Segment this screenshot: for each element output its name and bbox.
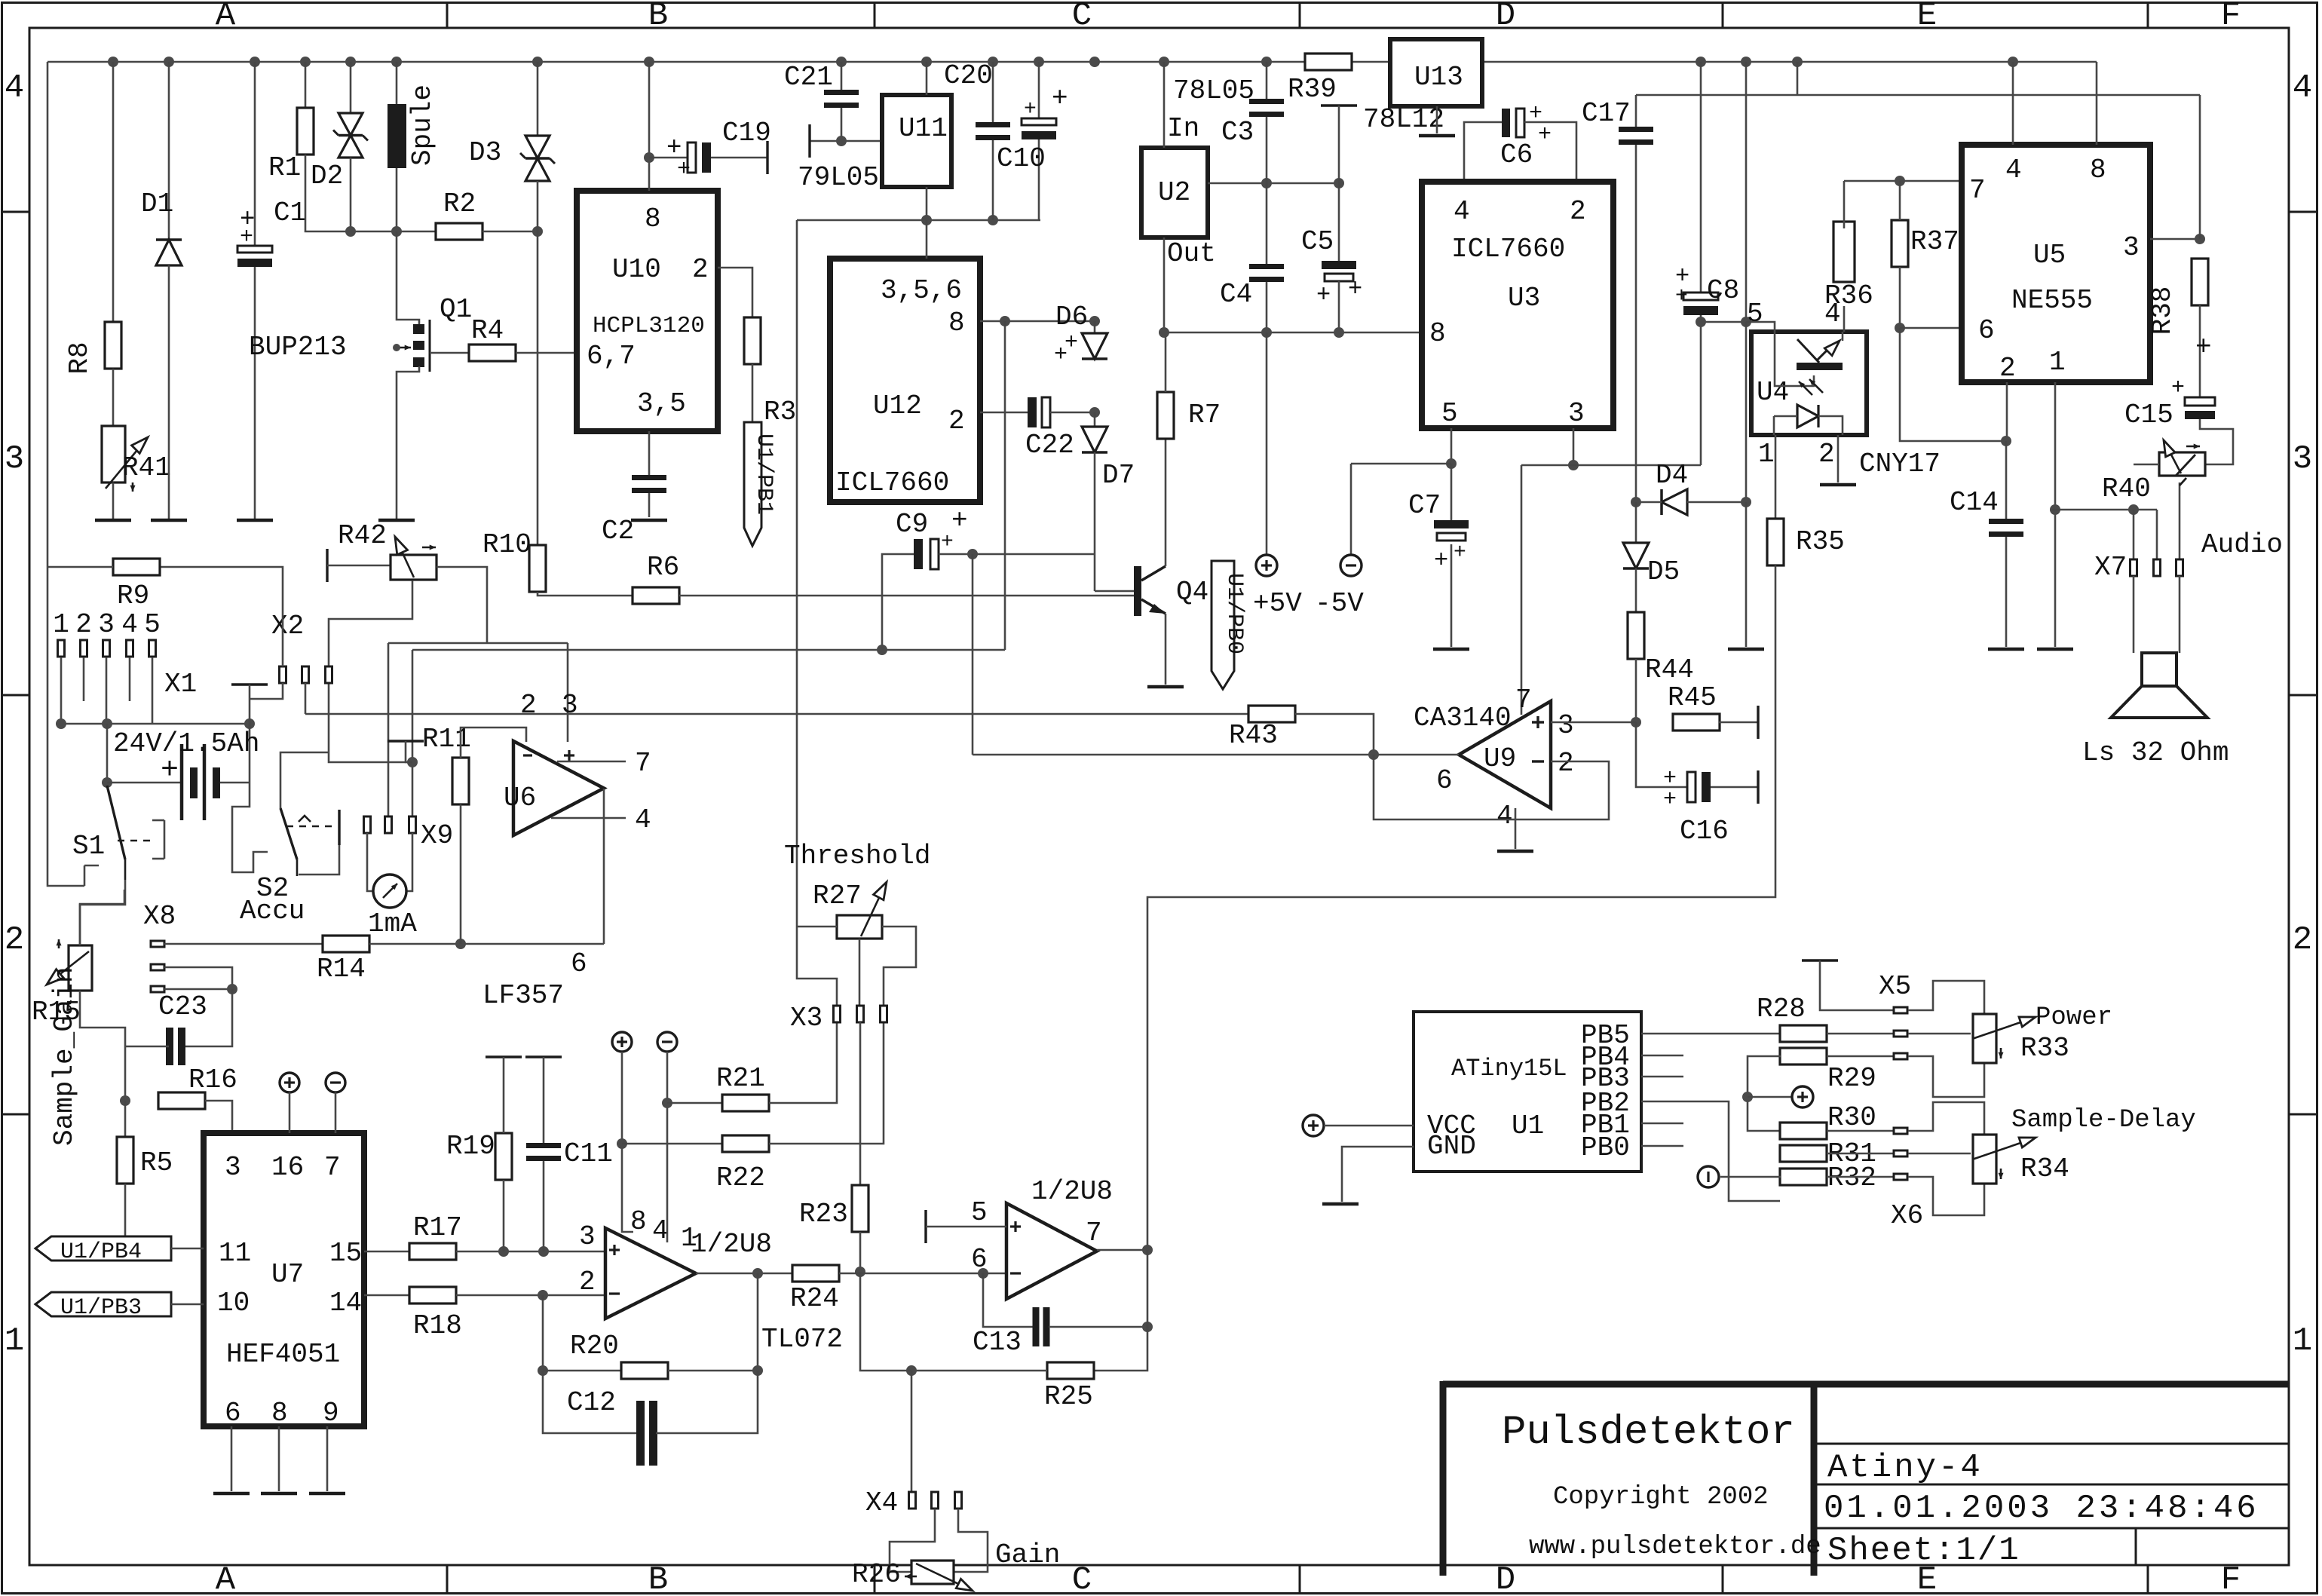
junction dot X4 riser [906,1365,917,1376]
ground under R41 [95,519,131,522]
svg-text:1: 1 [1758,439,1775,470]
svg-text:4: 4 [1454,196,1470,227]
svg-text:+: + [951,505,968,536]
wire U6 pin3 from y853 [567,643,569,742]
wire X7 pin2 riser [2156,510,2158,559]
wire C9 node riser to U9 output net [972,554,974,755]
svg-text:R45: R45 [1668,682,1717,713]
wire X4 pin3 to R26 right [954,1509,988,1572]
wire U9 supply rail y617 [1521,464,1701,467]
resistor R11 [452,758,469,804]
wire C8 D4 link y427 [1701,321,1746,323]
svg-text:+: + [1052,83,1068,114]
svg-text:ATiny15L: ATiny15L [1451,1055,1567,1083]
svg-text:R22: R22 [716,1163,765,1193]
title block rows [1814,1443,2289,1445]
svg-text:R21: R21 [716,1063,765,1094]
svg-text:+: + [1454,541,1466,565]
IC U4 CNY17 [1751,332,1867,435]
resistor R44 [1635,568,1637,612]
svg-text:7: 7 [635,748,651,779]
resistor R23 [852,1185,868,1232]
junction dot C21 node [836,136,847,146]
connector X9 [364,816,371,833]
svg-text:Accu: Accu [240,896,305,927]
capacitor C5 polarized [1321,104,1357,106]
wire X8 pin2 [164,967,232,989]
IC U13 78L12 [1390,39,1482,106]
svg-text:ICL7660: ICL7660 [835,467,949,498]
svg-text:R25: R25 [1044,1381,1093,1412]
speaker Ls 32 Ohm [2142,653,2176,686]
svg-text:R20: R20 [570,1331,619,1362]
svg-text:Copyright 2002: Copyright 2002 [1553,1483,1769,1512]
wire C23 right riser [182,989,232,1046]
wire R29 to X5 pin3 [1827,1055,1894,1058]
opamp U8b TL072 [1006,1203,1097,1299]
ground under Q1 [378,519,415,522]
svg-text:R5: R5 [140,1147,173,1178]
svg-text:U1/PB1: U1/PB1 [751,433,777,515]
diode D4 [1662,489,1687,515]
svg-text:C11: C11 [564,1138,613,1169]
svg-text:8: 8 [1429,318,1446,349]
svg-text:R23: R23 [799,1199,848,1230]
svg-text:8: 8 [271,1398,288,1429]
wire D1 column [168,62,170,240]
opamp U9 CA3140 [1459,701,1551,808]
wire R40 left lead [2134,464,2159,466]
wire S2 blade feed [280,752,329,808]
junction dot X7 pin1 riser [2128,504,2139,515]
wire U4 pin4 to R36 [1843,306,1846,332]
junction dot R37 top [1895,176,1905,186]
wire Q4 emitter to ground [1165,614,1167,685]
svg-text:D2: D2 [311,161,343,191]
svg-text:Sample-Delay: Sample-Delay [2011,1106,2196,1135]
wire flag PB4 to pin11 [171,1248,204,1250]
wire R11 bottom to R14 net [460,804,462,944]
wire X9 pin1 to meter [367,833,373,891]
svg-text:7: 7 [324,1152,341,1183]
wire R23 bottom [859,1232,862,1272]
resistor R31 [1780,1145,1827,1162]
svg-text:9: 9 [323,1398,339,1429]
svg-text:C2: C2 [602,516,634,547]
svg-text:+: + [1538,122,1552,148]
wire X9 pin2 riser [388,643,390,818]
pin7 stub U6 [557,761,626,763]
junction dot D6 D7 node [1089,407,1100,418]
svg-text:5: 5 [971,1197,988,1228]
capacitor C19 polarized [649,157,688,159]
wire U7 pin15 to R17 [364,1251,410,1253]
svg-text:U3: U3 [1508,283,1540,314]
svg-text:U7: U7 [271,1259,304,1290]
svg-text:HCPL3120: HCPL3120 [593,313,705,339]
svg-text:5: 5 [1441,398,1458,429]
svg-text:C22: C22 [1025,430,1074,461]
resistor R22 [622,1143,723,1145]
wire battery feed [106,724,109,783]
junction dot R20 right [752,1365,763,1376]
svg-text:78L12: 78L12 [1363,104,1444,135]
svg-text:X8: X8 [143,901,176,932]
wire R42 wiper tail [329,581,412,666]
wire U9 pin7 riser [1521,465,1523,715]
wire R29 left chain [1748,1056,1781,1131]
transistor Q4 [1134,566,1141,616]
wire R40 wiper to X7 pin3 [2179,482,2181,559]
svg-text:2: 2 [948,406,965,437]
wire U10 pin35 down [648,431,651,475]
svg-text:Ls 32 Ohm: Ls 32 Ohm [2082,737,2229,768]
IC U3 ICL7660 [1422,182,1613,428]
resistor R3 [744,317,761,364]
ground under C1 [237,519,273,522]
connector X6 [1894,1128,1907,1134]
junction dots opamp supplies [617,1138,627,1149]
connector X2 [280,666,286,683]
junction dot speaker net [2050,504,2060,515]
wire U9 pin2 feedback [1374,755,1609,819]
svg-text:R26: R26 [852,1559,901,1590]
wire X2 pin3 branch [329,683,412,762]
svg-text:3,5: 3,5 [637,388,686,419]
svg-text:R14: R14 [317,954,366,985]
resistor R9 [113,559,160,575]
svg-text:U1/PB4: U1/PB4 [60,1239,142,1265]
svg-text:R35: R35 [1796,526,1845,557]
svg-text:GND: GND [1427,1131,1476,1162]
wire C12 right [656,1371,758,1433]
resistor R8 [105,322,121,369]
wire rail riser to bus [1797,62,1799,95]
wire PB3 stub [1641,1076,1683,1078]
battery 24V [107,782,180,784]
supply circle plus U8a [612,1032,632,1052]
svg-text:C19: C19 [722,118,771,149]
svg-text:TL072: TL072 [761,1324,843,1355]
wire aux to R32 [1720,1176,1781,1178]
wire R11 top to U6 pin2 [461,728,526,758]
svg-text:R28: R28 [1757,994,1806,1025]
svg-text:CA3140: CA3140 [1414,703,1512,734]
svg-text:Atiny-4: Atiny-4 [1827,1449,1983,1487]
junction dots pin8 wire [1000,316,1010,326]
IC U2 78L05 [1141,148,1208,237]
svg-text:1/2U8: 1/2U8 [1031,1176,1113,1207]
svg-text:+: + [1663,787,1677,813]
flag U1/PB4 [35,1236,171,1261]
wire U5 pin6 [1900,327,1962,329]
wire U12 top pin [926,220,928,259]
capacitor C23 [166,1028,173,1065]
resistor R17 [409,1243,456,1260]
wire U4 pin5 to C8 rail [1746,322,1775,332]
wire C2 to ground [648,493,651,517]
svg-text:C6: C6 [1500,139,1533,170]
capacitor C10 polarized [1038,62,1040,118]
resistor R45 [1673,714,1720,731]
capacitor C3 [1266,62,1268,99]
junction dot pin6 net [1895,323,1905,333]
resistor R1 [297,108,314,155]
svg-text:+: + [941,531,954,554]
connector X7 [2131,559,2137,576]
wire VCC to U1 [1324,1125,1414,1127]
wire R43 to U9 [1295,714,1374,755]
svg-text:4: 4 [2293,69,2312,107]
wire D2 to node [350,158,352,231]
svg-text:+: + [1675,285,1688,308]
diode D5 [1635,502,1637,543]
svg-text:C13: C13 [973,1327,1022,1358]
wire PB5 to R28 [1641,1033,1781,1035]
ground under C2 [631,519,667,522]
wire net y862 [412,649,1005,651]
svg-text:U6: U6 [504,783,536,813]
svg-text:C3: C3 [1221,117,1254,148]
meter 1mA [373,875,406,908]
wire Q1 gate to R4 [430,352,469,354]
svg-text:R4: R4 [471,315,504,346]
junction dots X1 bus [56,718,66,729]
svg-text:X4: X4 [865,1487,898,1518]
ground under U13 [1419,134,1455,138]
wire speaker net y676 [2052,509,2157,511]
supply circle VCC [1303,1115,1324,1136]
wires U7 bottom pins to ground [231,1426,233,1491]
svg-text:R7: R7 [1188,400,1221,430]
svg-text:1: 1 [53,609,69,640]
svg-text:R38: R38 [2147,286,2178,335]
capacitor C11 [525,1055,562,1058]
svg-text:R17: R17 [413,1212,462,1243]
svg-text:6,7: 6,7 [587,341,636,372]
wire X6 pin1 to R34 top [1908,1102,1984,1135]
wire R25 left to X4 riser [911,1370,1047,1372]
svg-text:3: 3 [2123,232,2140,263]
wire C9 left leg [882,554,914,650]
wire R19 bottom [503,1180,505,1251]
wire U4 pin1 to R35 [1775,435,1777,519]
svg-text:7: 7 [1515,685,1532,715]
svg-text:Gain: Gain [995,1539,1060,1570]
resistor R21 [667,1102,723,1104]
svg-text:4: 4 [1496,801,1513,832]
svg-text:+: + [1434,547,1448,574]
svg-text:D7: D7 [1102,460,1135,491]
svg-text:-5V: -5V [1315,588,1364,619]
wire X8 pin1 to R14 [164,943,323,945]
wire X7 pin1 riser [2133,510,2135,559]
ground under D4 right [1728,648,1764,651]
svg-text:U13: U13 [1414,62,1463,93]
svg-text:U5: U5 [2033,240,2066,271]
wire U3 pin5 down [1450,428,1453,464]
wire R5 to ground [124,1184,127,1242]
wire C13 loop from X4 net [983,1273,1034,1327]
svg-text:14: 14 [329,1288,362,1319]
resistor R4 [469,345,516,361]
svg-text:6: 6 [1978,315,1995,346]
svg-text:R33: R33 [2020,1033,2069,1064]
svg-text:A: A [216,0,236,35]
ground under U5 pin1 [2037,648,2073,651]
svg-text:1/2U8: 1/2U8 [691,1229,772,1260]
wire U3 pin3 down to U9 supply rail [1573,428,1575,465]
svg-text:X2: X2 [271,611,304,642]
wire U12 pin2 [980,412,1029,414]
wire threshold supply drop [796,220,798,927]
resistor R38 [2192,259,2208,305]
wire Q4 collector to R7 [1165,437,1167,566]
svg-text:+: + [1316,281,1331,309]
junction dots drain node [345,226,356,237]
wire X5 pin1 to R33 top [1908,981,1984,1014]
wire U2 in from bus [1163,62,1166,148]
wire U6 output down to R14 net [603,789,605,944]
wire PB4 stub [1641,1055,1683,1057]
ground under R5 [107,1242,143,1246]
wire rail y126 [1636,94,2200,96]
wire R15 top to S1 pole [80,880,125,945]
zener diode D3 [525,136,550,158]
supply circle plus U7 pin16 [280,1073,299,1092]
svg-text:X5: X5 [1879,971,1911,1002]
resistor R43 [1248,706,1295,722]
svg-text:NE555: NE555 [2011,285,2093,316]
connector X3 [834,1006,841,1022]
frame row ticks right [2289,211,2317,213]
wire R38 to C15 [2199,305,2201,397]
wire D3 to node [537,181,539,231]
junction dots on top bus [108,57,118,67]
junction dots rail y292 [921,215,932,225]
junction dot R38 top [2195,234,2205,244]
svg-text:3,5,6: 3,5,6 [881,275,962,306]
U4 LED [1797,405,1818,427]
wire R21 to X3 pin1 [769,1022,837,1103]
supply circle +5V [1256,555,1277,576]
wire R38 feed from rail [2199,95,2201,239]
resistor R24 [792,1265,839,1282]
svg-text:24V/1.5Ah: 24V/1.5Ah [113,728,259,759]
resistor R16 [158,1092,205,1109]
wire PB2 [1641,1101,1780,1201]
wire top supply bus [47,61,1306,63]
svg-text:R29: R29 [1827,1063,1876,1094]
junction dots 243 rail [1261,178,1272,188]
resistor R37 [1892,220,1908,267]
flag U1/PB3 [35,1292,171,1316]
svg-text:U11: U11 [899,113,948,144]
svg-text:5: 5 [1747,299,1763,329]
wire U5 pin4 to bus [2012,62,2014,145]
zener diode D2 [338,113,363,136]
svg-text:C1: C1 [274,198,306,228]
svg-text:3: 3 [225,1152,241,1183]
junction dot R16 node [120,1095,130,1106]
svg-text:HEF4051: HEF4051 [226,1339,340,1370]
svg-text:U9: U9 [1484,743,1516,774]
wire U5 pin8 to bus [2096,62,2098,145]
wire C9 right to D7 column [939,553,1095,556]
capacitor C4 [1266,183,1268,264]
junction dot R20 riser top [752,1268,763,1279]
wire R8 column [112,62,115,322]
svg-text:BUP213: BUP213 [249,332,347,363]
resistor R29 [1780,1048,1827,1065]
wire Q1 emitter to ground [397,366,419,519]
svg-text:6: 6 [571,948,587,979]
resistor R28 [1780,1025,1827,1042]
svg-text:U2: U2 [1158,177,1190,208]
svg-text:C23: C23 [158,991,207,1022]
svg-text:F: F [2221,1561,2241,1596]
svg-text:4: 4 [635,804,651,835]
wire riser x1333 [1004,412,1006,650]
svg-text:U4: U4 [1757,377,1789,408]
svg-text:A: A [216,1561,236,1596]
resistor R25 [1094,1327,1147,1371]
wire R15 top to battery net [80,890,124,945]
svg-text:79L05: 79L05 [798,162,879,193]
junction dot C9 right [967,549,978,559]
svg-text:Q4: Q4 [1176,577,1208,608]
wire R36 top to pin7 net [1843,181,1846,228]
svg-text:R16: R16 [188,1065,237,1095]
svg-text:10: 10 [217,1288,250,1319]
wire R9 to X2 pin1 [161,567,283,666]
ground stub above battery [231,683,268,685]
resistor R6 [633,587,679,604]
wire U11 top to bus [926,62,928,95]
svg-text:7: 7 [1086,1218,1102,1248]
svg-text:+: + [1065,330,1078,356]
supply circle minus U7 pin7 [326,1073,345,1092]
wire X8 pin3 [164,988,232,991]
wire R37 top [1899,181,1901,220]
wire C13 node to output [1147,1250,1149,1327]
IC U1 ATiny15L [1414,1012,1641,1172]
svg-text:+: + [677,157,691,182]
svg-text:+: + [1024,98,1037,121]
svg-text:4: 4 [5,69,24,107]
opamp U8a TL072 [605,1228,696,1319]
junction dot U9 feedback [1368,749,1379,760]
resistor R30 [1780,1123,1827,1139]
ground under C7 [1433,648,1469,651]
svg-text:C12: C12 [567,1387,616,1418]
grounds under U7 [213,1492,250,1496]
wire R31 to X6 pin2 [1827,1153,1894,1155]
wire D3 node to R10 [537,231,539,547]
trimmer R26 Gain [911,1561,954,1584]
ground under U4 pin2 [1820,483,1856,487]
wire D4 right to ground [1745,502,1748,647]
svg-text:R27: R27 [813,881,862,911]
svg-text:Sheet:1/1: Sheet:1/1 [1827,1532,2020,1570]
svg-text:3: 3 [1568,398,1585,429]
svg-text:1mA: 1mA [368,908,417,939]
svg-text:+: + [1348,275,1362,303]
svg-text:X1: X1 [164,669,197,700]
wire R14 to U6 output [369,943,604,945]
wire R44 to U9 pin3 node [1635,659,1637,722]
U4 phototransistor [1797,363,1843,370]
